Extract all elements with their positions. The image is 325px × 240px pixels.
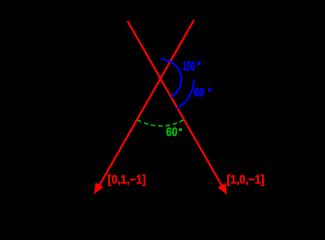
arrowhead of [1,0,-1] bbox=[218, 183, 227, 195]
svg-text:60: 60 bbox=[194, 87, 204, 99]
line [0,1,-1] from upper-right to lower-left bbox=[99, 20, 194, 186]
green dashed arc 60 degrees between the two arrow rays bbox=[137, 120, 184, 126]
line [1,0,-1] from upper-left to lower-right bbox=[128, 21, 223, 186]
svg-text:150: 150 bbox=[183, 59, 196, 74]
svg-text:60: 60 bbox=[166, 127, 178, 139]
degree mark of blue 60 bbox=[208, 89, 211, 92]
arrowhead of [0,1,-1] bbox=[94, 183, 103, 195]
svg-text:[1,0,−1]: [1,0,−1] bbox=[227, 173, 264, 187]
degree mark of green 60 bbox=[179, 128, 182, 131]
blue arc 60 degrees (from horizontal right, clockwise to [1,0,-1] ray) bbox=[177, 80, 194, 109]
svg-text:[0,1,−1]: [0,1,−1] bbox=[108, 173, 146, 187]
degree mark of 150 bbox=[197, 62, 201, 65]
blue arc 150 degrees (from vertical up, clockwise to [1,0,-1] ray) bbox=[161, 59, 181, 97]
